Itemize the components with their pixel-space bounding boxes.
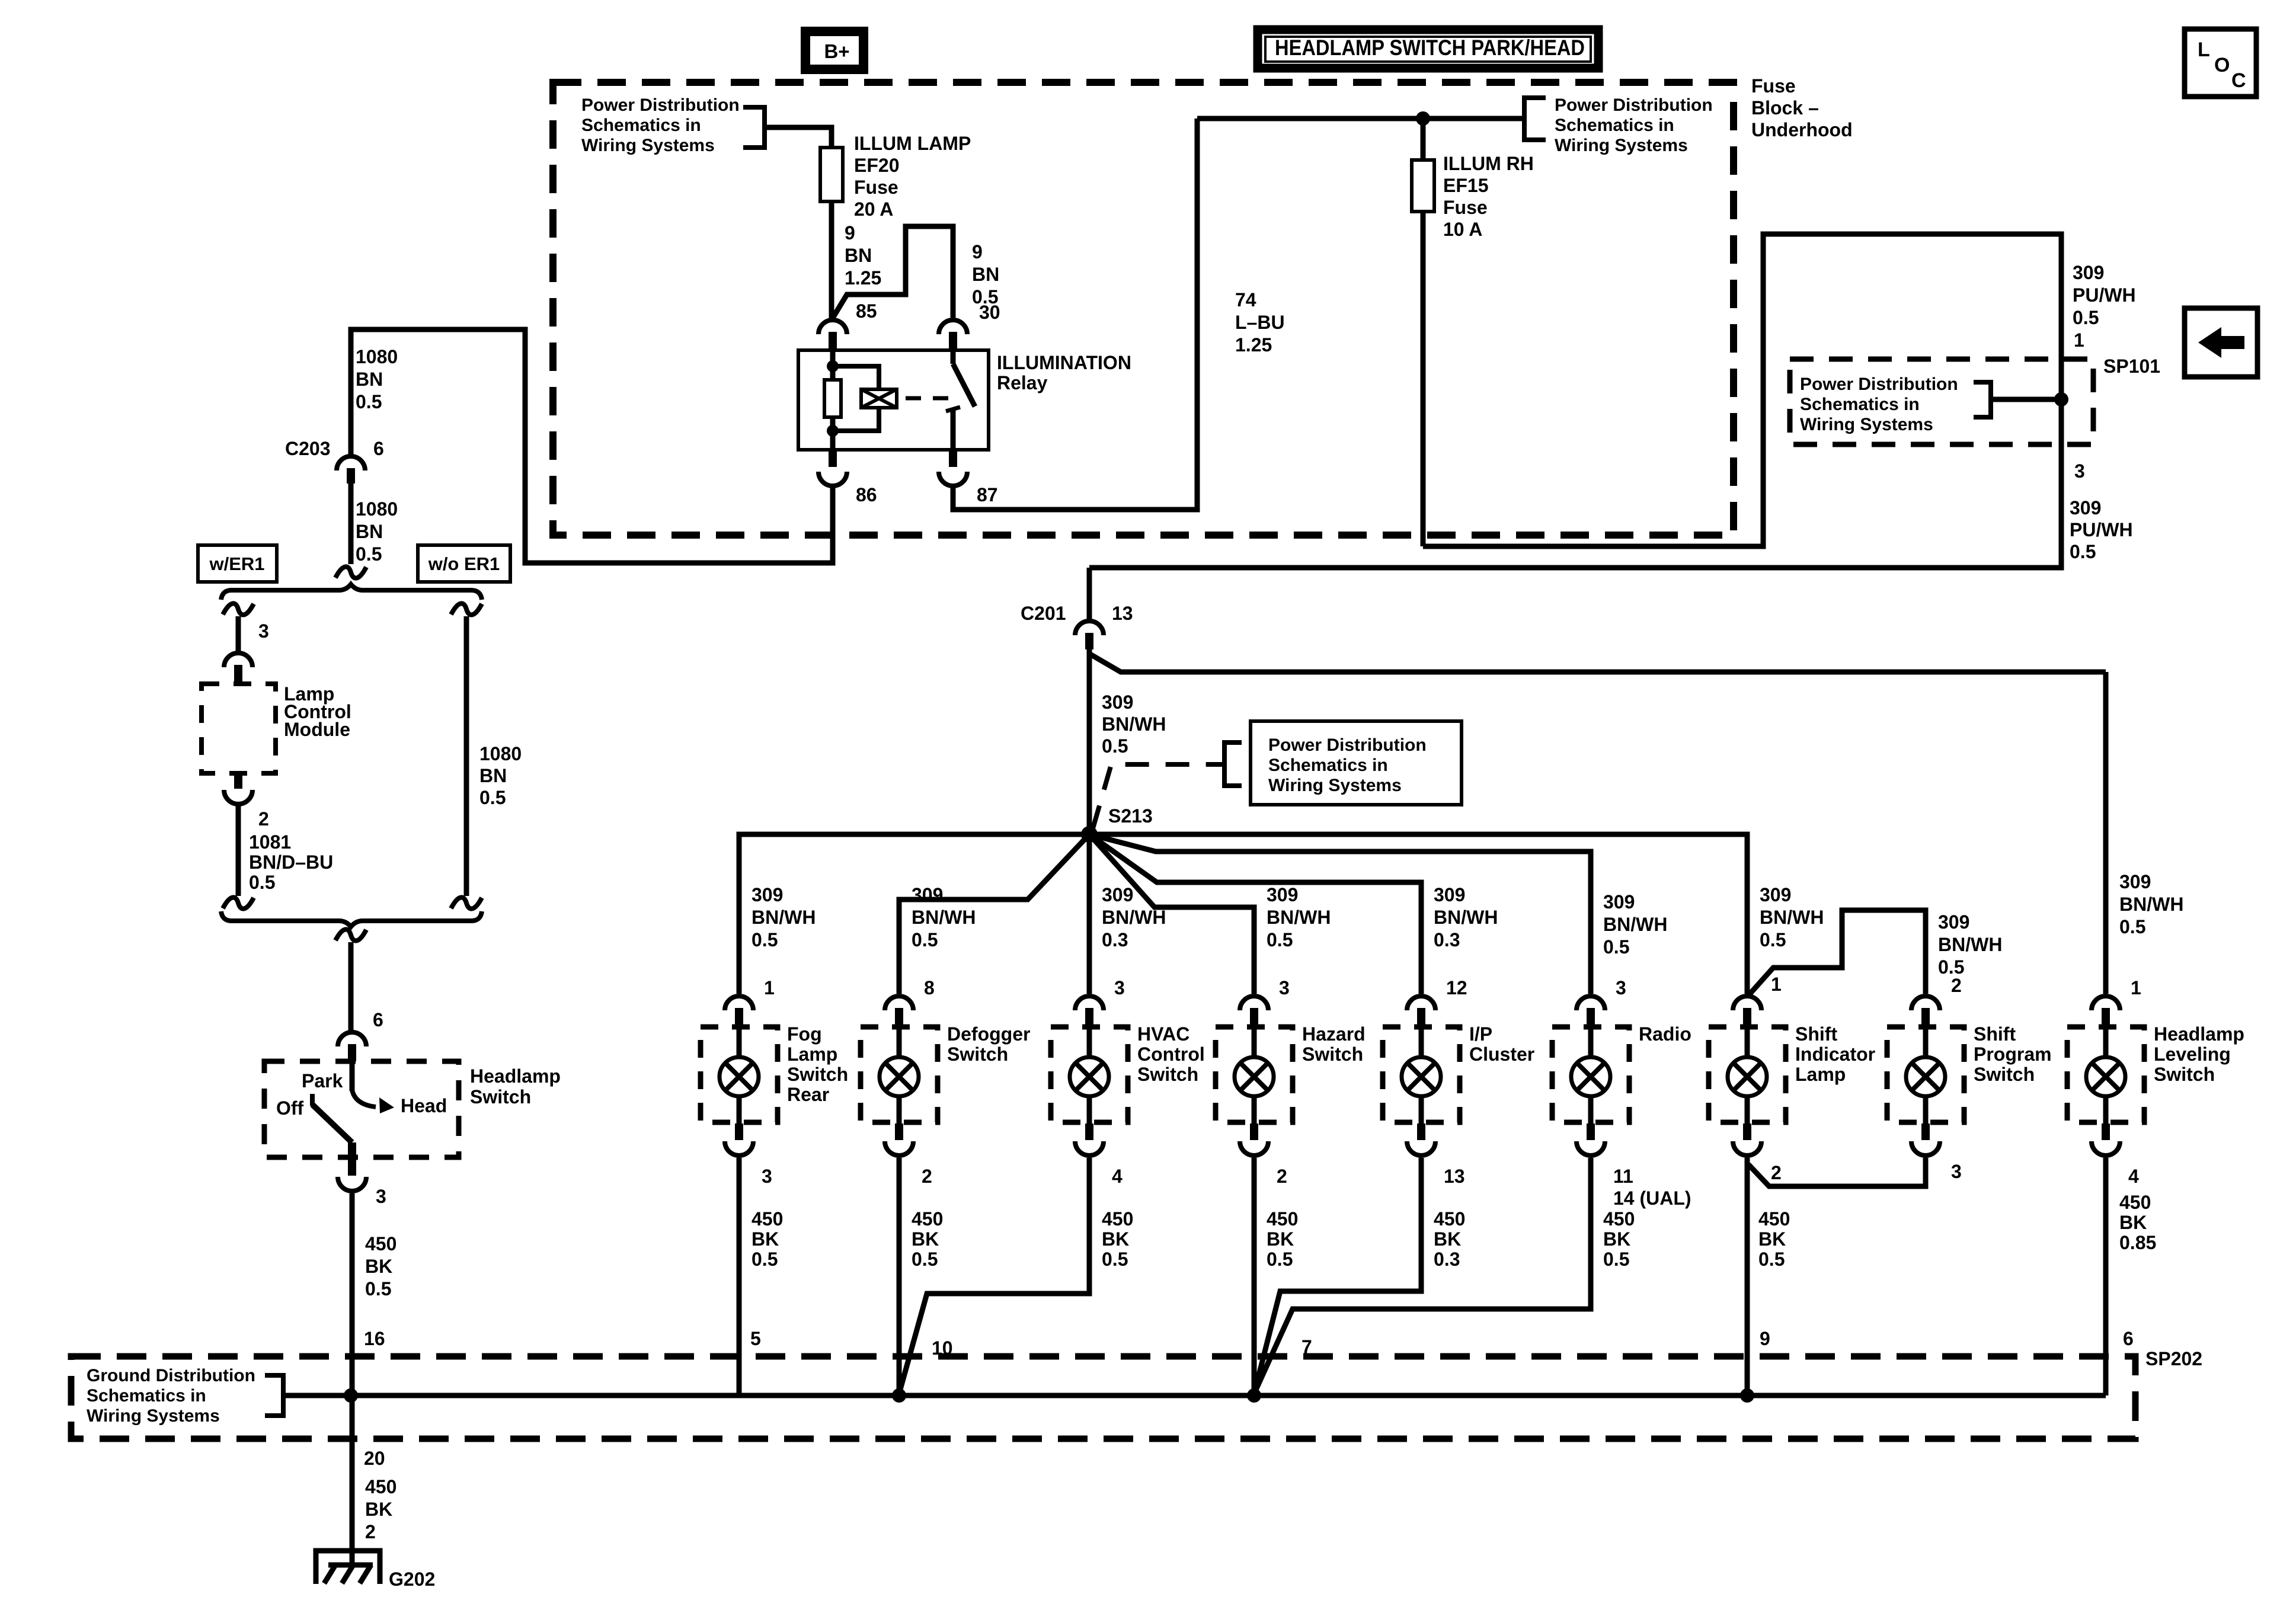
junction node headlamp switch ground <box>344 1388 358 1403</box>
svg-text:Rear: Rear <box>787 1084 829 1105</box>
svg-text:1.25: 1.25 <box>1235 334 1272 356</box>
wire top feed to bracket (right) <box>1197 116 1524 121</box>
svg-text:450: 450 <box>912 1208 943 1230</box>
svg-text:0.5: 0.5 <box>1760 929 1786 950</box>
bracket ground distribution <box>265 1375 283 1416</box>
svg-text:Hazard: Hazard <box>1302 1023 1366 1045</box>
wire from bracket to fuse EF20 <box>765 127 832 148</box>
svg-text:EF15: EF15 <box>1443 175 1488 196</box>
svg-text:BN/WH: BN/WH <box>752 907 816 928</box>
svg-text:309: 309 <box>1267 884 1298 905</box>
svg-text:Switch: Switch <box>1974 1064 2035 1085</box>
wire Shift Program to jog <box>1748 1158 1926 1186</box>
svg-text:C203: C203 <box>285 438 331 459</box>
connector headlamp switch pin 3 <box>338 1142 386 1207</box>
svg-text:0.5: 0.5 <box>912 929 938 950</box>
svg-text:85: 85 <box>856 300 877 322</box>
svg-text:C: C <box>2231 69 2246 92</box>
svg-text:0.5: 0.5 <box>1267 1249 1293 1270</box>
lamp HVAC Control Switch <box>1070 977 1125 1156</box>
switch common wire <box>350 1061 355 1091</box>
svg-text:SP101: SP101 <box>2103 356 2160 377</box>
svg-text:450: 450 <box>365 1476 396 1497</box>
branch brace bottom <box>221 911 482 927</box>
svg-text:Schematics in: Schematics in <box>1800 395 1920 414</box>
wire break above brace <box>335 566 366 578</box>
junction node at fuse EF15 <box>1416 111 1430 126</box>
splice SP101 dashed box <box>1790 359 2093 444</box>
svg-text:4: 4 <box>2128 1166 2139 1187</box>
power symbol B+ box <box>805 31 864 69</box>
wire I/P cluster to ground jog (450 BK 0.3) <box>1254 1158 1421 1394</box>
svg-text:0.5: 0.5 <box>356 543 382 565</box>
dashed box I/P Cluster <box>1383 1027 1460 1122</box>
svg-text:Shift: Shift <box>1974 1023 2016 1045</box>
svg-text:Schematics in: Schematics in <box>1268 756 1388 775</box>
bracket to power distribution (right) <box>1524 98 1546 140</box>
svg-text:L: L <box>2198 39 2210 61</box>
wire C201 to S213 (309 BN/WH 0.5) <box>1087 649 1092 834</box>
wire pin 87 to junction (74 L-BU 1.25) <box>953 119 1197 510</box>
svg-text:0.5: 0.5 <box>479 787 506 808</box>
svg-text:Fuse: Fuse <box>1443 197 1488 218</box>
svg-text:0.5: 0.5 <box>2073 307 2099 328</box>
svg-text:BN/WH: BN/WH <box>1434 907 1498 928</box>
wire C201 branch to headlamp leveling <box>1088 653 2106 672</box>
svg-text:ILLUM RH: ILLUM RH <box>1443 153 1534 174</box>
svg-text:0.5: 0.5 <box>1603 1249 1629 1270</box>
svg-text:Schematics in: Schematics in <box>1555 116 1674 135</box>
svg-text:L–BU: L–BU <box>1235 312 1285 333</box>
svg-text:Off: Off <box>276 1097 304 1119</box>
svg-text:Switch: Switch <box>787 1064 848 1085</box>
svg-text:Block –: Block – <box>1751 97 1819 119</box>
junction node shift indicator ground <box>1740 1388 1754 1403</box>
pin 85 connector <box>818 300 877 350</box>
svg-text:450: 450 <box>1102 1208 1133 1230</box>
svg-text:1080: 1080 <box>356 498 398 520</box>
dashed box Headlamp Leveling Switch <box>2067 1027 2144 1122</box>
svg-text:SP202: SP202 <box>2145 1348 2202 1369</box>
svg-text:Ground Distribution: Ground Distribution <box>87 1366 255 1385</box>
relay dashed actuation link <box>906 396 948 401</box>
svg-text:BK: BK <box>752 1228 779 1250</box>
dashed box Defogger Switch <box>861 1027 938 1122</box>
svg-text:BN: BN <box>356 369 383 390</box>
svg-text:2: 2 <box>365 1521 376 1542</box>
svg-text:Indicator: Indicator <box>1795 1044 1875 1065</box>
svg-text:BN: BN <box>845 245 872 266</box>
svg-text:74: 74 <box>1235 289 1256 311</box>
relay coil (box with X) <box>833 366 897 431</box>
dashed box Shift Program Switch <box>1887 1027 1964 1122</box>
svg-text:Underhood: Underhood <box>1751 119 1853 140</box>
svg-text:BN/WH: BN/WH <box>912 907 976 928</box>
wire break w/ER1 branch bottom <box>223 897 254 908</box>
wire break w/o ER1 branch bottom <box>451 897 482 908</box>
svg-text:11: 11 <box>1613 1166 1633 1187</box>
svg-text:BN/WH: BN/WH <box>1102 907 1166 928</box>
connector C201 pin 13 <box>1021 603 1133 649</box>
svg-text:10 A: 10 A <box>1443 219 1482 240</box>
wire Radio to ground jog (450 BK 0.5) <box>1254 1158 1591 1394</box>
svg-text:87: 87 <box>977 484 998 505</box>
svg-text:0.5: 0.5 <box>365 1278 391 1299</box>
Fuse Block - Underhood dashed box <box>553 82 1734 535</box>
svg-text:3: 3 <box>762 1166 772 1187</box>
pin 87 connector <box>939 450 998 505</box>
ground bus wire SP202 <box>283 1393 2106 1398</box>
wire to Headlamp Leveling switch <box>2103 672 2109 994</box>
svg-text:309: 309 <box>1102 884 1133 905</box>
Ground Distribution dashed box SP202 <box>71 1356 2135 1439</box>
svg-text:Wiring Systems: Wiring Systems <box>1268 776 1402 795</box>
svg-text:0.5: 0.5 <box>1603 936 1629 958</box>
svg-text:0.5: 0.5 <box>752 1249 778 1270</box>
svg-text:HVAC: HVAC <box>1137 1023 1189 1045</box>
lamp I/P Cluster <box>1402 977 1467 1156</box>
svg-text:13: 13 <box>1112 603 1133 624</box>
svg-text:0.5: 0.5 <box>1102 735 1128 757</box>
wire Shift Indicator to ground (450 BK 0.5) <box>1745 1158 1750 1394</box>
svg-text:S213: S213 <box>1108 805 1153 827</box>
svg-text:3: 3 <box>1114 977 1125 998</box>
svg-text:6: 6 <box>373 1009 383 1030</box>
svg-text:Defogger: Defogger <box>947 1023 1030 1045</box>
svg-text:BK: BK <box>1102 1228 1129 1250</box>
svg-text:0.5: 0.5 <box>752 929 778 950</box>
wire bracket to SP101 node <box>1991 397 2061 402</box>
branch brace top <box>221 584 482 600</box>
svg-text:B+: B+ <box>824 40 849 62</box>
lamp Defogger Switch <box>880 977 935 1156</box>
svg-text:BK: BK <box>1434 1228 1461 1250</box>
svg-text:0.3: 0.3 <box>1434 1249 1460 1270</box>
svg-text:1: 1 <box>1771 974 1782 995</box>
svg-text:0.85: 0.85 <box>2119 1232 2156 1253</box>
svg-text:BK: BK <box>912 1228 939 1250</box>
junction node hazard/IP/radio ground <box>1247 1388 1261 1403</box>
svg-text:Wiring Systems: Wiring Systems <box>1800 415 1933 434</box>
option label box w/ER1 <box>198 545 277 582</box>
svg-text:1080: 1080 <box>356 346 398 367</box>
svg-text:Schematics in: Schematics in <box>581 116 701 135</box>
svg-text:HEADLAMP SWITCH PARK/HEAD: HEADLAMP SWITCH PARK/HEAD <box>1275 36 1585 60</box>
svg-text:BN/D–BU: BN/D–BU <box>249 852 333 873</box>
connector Lamp Control Module pin 3 <box>224 653 252 683</box>
svg-text:BK: BK <box>2119 1212 2147 1233</box>
relay coil resistor branch <box>824 350 841 450</box>
svg-text:450: 450 <box>365 1233 396 1254</box>
svg-text:BK: BK <box>1603 1228 1630 1250</box>
svg-text:ILLUMINATION: ILLUMINATION <box>997 352 1131 373</box>
svg-text:309: 309 <box>1102 692 1133 713</box>
switch Headlamp Switch dashed box <box>264 1061 459 1157</box>
svg-text:Power Distribution: Power Distribution <box>1555 95 1713 115</box>
svg-text:3: 3 <box>376 1186 386 1207</box>
title box HEADLAMP SWITCH PARK/HEAD <box>1258 30 1598 68</box>
svg-text:0.5: 0.5 <box>2070 541 2096 562</box>
wire fuse EF20 to relay pin 85 <box>829 201 834 319</box>
wire w/o ER1 branch (1080 BN 0.5) <box>464 616 469 896</box>
svg-text:Power Distribution: Power Distribution <box>581 95 740 115</box>
wire to Lamp Control Module pin 3 <box>236 616 241 652</box>
svg-text:G202: G202 <box>389 1569 435 1590</box>
svg-text:309: 309 <box>2073 262 2104 283</box>
svg-text:3: 3 <box>258 620 269 642</box>
svg-text:BN: BN <box>479 765 507 786</box>
svg-text:PU/WH: PU/WH <box>2070 519 2133 540</box>
svg-text:Fuse: Fuse <box>1751 75 1796 97</box>
svg-text:450: 450 <box>1758 1208 1790 1230</box>
svg-text:13: 13 <box>1444 1166 1465 1187</box>
svg-text:BN: BN <box>972 264 999 285</box>
svg-text:BN/WH: BN/WH <box>1603 914 1667 935</box>
bracket to power distribution (left) <box>743 107 765 148</box>
svg-text:Head: Head <box>401 1095 447 1116</box>
svg-text:450: 450 <box>752 1208 783 1230</box>
wire break w/o ER1 branch top <box>451 603 482 614</box>
svg-text:0.5: 0.5 <box>1102 1249 1128 1270</box>
svg-text:450: 450 <box>1267 1208 1298 1230</box>
option label box w/o ER1 <box>418 545 510 582</box>
lamp Shift Indicator Lamp <box>1728 974 1782 1156</box>
svg-text:PU/WH: PU/WH <box>2073 284 2136 306</box>
wire jog Shift Indicator to Shift Program <box>1748 910 1926 996</box>
svg-text:0.3: 0.3 <box>1102 929 1128 950</box>
wire pin 2 down (1081 BN/D-BU 0.5) <box>236 806 241 896</box>
arrow pointer box <box>2185 308 2257 377</box>
svg-text:Headlamp: Headlamp <box>2154 1023 2244 1045</box>
svg-text:Headlamp: Headlamp <box>470 1065 561 1087</box>
svg-text:Fog: Fog <box>787 1023 822 1045</box>
lamp Radio <box>1571 977 1626 1156</box>
fuse EF15 ILLUM RH 10A <box>1412 119 1434 546</box>
svg-text:1080: 1080 <box>479 743 522 764</box>
svg-text:0.5: 0.5 <box>1758 1249 1785 1270</box>
svg-text:Shift: Shift <box>1795 1023 1837 1045</box>
svg-text:450: 450 <box>1434 1208 1465 1230</box>
svg-text:BN/WH: BN/WH <box>1938 934 2002 955</box>
svg-text:9: 9 <box>845 222 855 244</box>
svg-text:20 A: 20 A <box>854 199 893 220</box>
wire S213 to Defogger switch <box>899 834 1089 994</box>
svg-text:I/P: I/P <box>1469 1023 1492 1045</box>
svg-text:309: 309 <box>912 884 943 905</box>
svg-text:86: 86 <box>856 484 877 505</box>
svg-text:Leveling: Leveling <box>2154 1044 2231 1065</box>
svg-text:Wiring Systems: Wiring Systems <box>87 1406 220 1426</box>
svg-text:0.5: 0.5 <box>912 1249 938 1270</box>
svg-text:Relay: Relay <box>997 372 1048 393</box>
svg-text:Switch: Switch <box>1302 1044 1363 1065</box>
svg-text:Lamp: Lamp <box>787 1044 837 1065</box>
wire Hazard to ground (450 BK 0.5) <box>1252 1158 1257 1394</box>
wire pin 86 to C203 branch <box>351 329 833 563</box>
lamp Hazard Switch <box>1235 977 1290 1156</box>
svg-text:3: 3 <box>1951 1161 1962 1182</box>
junction node defogger/HVAC ground <box>892 1388 906 1403</box>
svg-text:1: 1 <box>2074 329 2084 351</box>
svg-text:0.5: 0.5 <box>249 872 275 893</box>
connector headlamp switch pin 6 <box>338 1009 383 1061</box>
svg-text:0.5: 0.5 <box>1267 929 1293 950</box>
svg-text:30: 30 <box>979 302 1000 323</box>
connector C203 pin 6 <box>285 438 384 484</box>
svg-text:Program: Program <box>1974 1044 2052 1065</box>
svg-text:Schematics in: Schematics in <box>87 1386 206 1406</box>
wire Defogger to ground (450 BK 0.5) <box>897 1158 902 1394</box>
svg-text:16: 16 <box>364 1328 385 1349</box>
svg-text:0.5: 0.5 <box>356 391 382 412</box>
ground G202 <box>316 1551 435 1590</box>
svg-text:Module: Module <box>284 719 350 740</box>
svg-text:3: 3 <box>2074 460 2085 482</box>
svg-text:O: O <box>2214 54 2230 76</box>
wire break w/ER1 branch top <box>223 603 254 614</box>
wire S213 to Hazard switch <box>1089 834 1254 994</box>
svg-text:Power Distribution: Power Distribution <box>1800 375 1958 394</box>
svg-text:450: 450 <box>1603 1208 1635 1230</box>
svg-text:Fuse: Fuse <box>854 177 898 198</box>
svg-text:3: 3 <box>1616 977 1626 998</box>
wire S213 to HVAC switch <box>1087 834 1092 994</box>
lamp Shift Program Switch <box>1906 975 1962 1156</box>
svg-text:6: 6 <box>2123 1328 2134 1349</box>
wire Headlamp Leveling to ground (450 BK 0.85) <box>2103 1158 2109 1394</box>
svg-text:450: 450 <box>2119 1192 2151 1213</box>
wire break below brace <box>335 929 366 940</box>
svg-text:2: 2 <box>258 808 269 830</box>
svg-text:309: 309 <box>2119 871 2151 892</box>
wire headlamp switch to ground (450 BK 0.5) <box>350 1193 355 1394</box>
svg-text:Radio: Radio <box>1639 1023 1691 1045</box>
switch travel arc with arrowhead <box>352 1090 376 1107</box>
switch lever from Off <box>312 1094 352 1142</box>
svg-text:BK: BK <box>1267 1228 1294 1250</box>
svg-text:BK: BK <box>365 1256 392 1277</box>
pin 30 connector <box>939 302 1000 350</box>
dashed box Fog Lamp Switch Rear <box>701 1027 778 1122</box>
svg-text:2: 2 <box>1951 975 1962 996</box>
svg-text:1: 1 <box>2131 977 2141 998</box>
svg-text:309: 309 <box>2070 497 2101 518</box>
svg-text:1081: 1081 <box>249 831 291 853</box>
svg-text:3: 3 <box>1279 977 1290 998</box>
svg-text:BK: BK <box>1758 1228 1786 1250</box>
svg-text:9: 9 <box>972 241 983 263</box>
svg-text:5: 5 <box>750 1328 761 1349</box>
svg-text:BN/WH: BN/WH <box>1267 907 1331 928</box>
wire S213 main horizontal <box>739 834 1747 994</box>
connector Lamp Control Module pin 2 <box>224 773 269 830</box>
svg-text:Switch: Switch <box>947 1044 1008 1065</box>
wire S213 to Radio <box>1089 834 1591 994</box>
wire HVAC to ground jog (450 BK 0.5) <box>899 1158 1089 1394</box>
svg-text:Lamp: Lamp <box>1795 1064 1846 1085</box>
svg-text:8: 8 <box>924 977 935 998</box>
svg-text:BN/WH: BN/WH <box>1760 907 1824 928</box>
svg-text:Switch: Switch <box>470 1086 531 1108</box>
svg-text:C201: C201 <box>1021 603 1066 624</box>
svg-text:Switch: Switch <box>1137 1064 1198 1085</box>
svg-text:12: 12 <box>1446 977 1467 998</box>
svg-text:1: 1 <box>764 977 775 998</box>
svg-text:Wiring Systems: Wiring Systems <box>581 136 715 155</box>
svg-text:14 (UAL): 14 (UAL) <box>1613 1188 1691 1209</box>
wire riser to C201 <box>1087 568 1092 620</box>
wire C203 to ER1 branch (1080 BN 0.5) <box>348 484 354 564</box>
svg-text:EF20: EF20 <box>854 155 899 176</box>
LOC reference box <box>2185 29 2256 97</box>
splice S213 <box>1081 826 1098 843</box>
svg-text:9: 9 <box>1760 1328 1770 1349</box>
svg-text:309: 309 <box>752 884 783 905</box>
dashed box Radio <box>1552 1027 1629 1122</box>
svg-text:ILLUM LAMP: ILLUM LAMP <box>854 133 971 154</box>
svg-text:BN/WH: BN/WH <box>2119 894 2183 915</box>
svg-text:0.3: 0.3 <box>1434 929 1460 950</box>
pin 86 connector <box>818 450 877 505</box>
svg-text:2: 2 <box>922 1166 932 1187</box>
svg-text:4: 4 <box>1112 1166 1123 1187</box>
junction node SP101 <box>2054 392 2068 406</box>
fuse EF20 ILLUM LAMP 20A <box>820 148 843 201</box>
bracket S213 ref <box>1224 742 1242 786</box>
svg-text:309: 309 <box>1938 911 1969 933</box>
svg-text:309: 309 <box>1603 891 1635 913</box>
svg-text:Control: Control <box>1137 1044 1205 1065</box>
lamp Headlamp Leveling Switch <box>2086 977 2141 1156</box>
dashed box Hazard Switch <box>1216 1027 1293 1122</box>
svg-text:BK: BK <box>365 1499 392 1520</box>
svg-text:BN: BN <box>356 521 383 542</box>
lamp Fog Lamp Switch Rear <box>720 977 775 1156</box>
svg-text:w/o ER1: w/o ER1 <box>428 553 500 574</box>
svg-text:6: 6 <box>373 438 384 459</box>
wire Fog Lamp to ground (450 BK 0.5) <box>737 1158 742 1394</box>
svg-text:2: 2 <box>1277 1166 1287 1187</box>
wire loop to SP101 <box>1089 234 2061 568</box>
wire S213 to I/P cluster <box>1089 834 1421 994</box>
svg-text:w/ER1: w/ER1 <box>209 553 264 574</box>
dashed box Shift Indicator Lamp <box>1709 1027 1786 1122</box>
svg-text:1.25: 1.25 <box>845 267 881 289</box>
svg-text:BN/WH: BN/WH <box>1102 713 1166 735</box>
wire to ground G202 <box>350 1395 355 1565</box>
bracket SP101 <box>1974 382 1991 417</box>
svg-text:Wiring Systems: Wiring Systems <box>1555 136 1688 155</box>
relay ILLUMINATION Relay box <box>798 350 989 450</box>
dashed box HVAC Control Switch <box>1051 1027 1128 1122</box>
svg-text:0.5: 0.5 <box>2119 916 2145 937</box>
svg-text:309: 309 <box>1434 884 1465 905</box>
wire jog to relay pin 30 (9 BN 0.5) <box>833 226 953 318</box>
svg-text:Park: Park <box>302 1070 343 1092</box>
wire to headlamp switch pin 6 <box>348 942 354 1031</box>
relay switch arm 30-87 <box>946 350 975 450</box>
svg-text:309: 309 <box>1760 884 1791 905</box>
module Lamp Control Module dashed box <box>202 684 276 773</box>
svg-text:20: 20 <box>364 1448 385 1469</box>
svg-text:Power Distribution: Power Distribution <box>1268 735 1427 755</box>
svg-text:Cluster: Cluster <box>1469 1044 1534 1065</box>
svg-text:Switch: Switch <box>2154 1064 2215 1085</box>
reference box: Power Distribution Schematics in Wiring Systems (S213) <box>1251 721 1462 805</box>
svg-text:2: 2 <box>1771 1162 1782 1183</box>
dashed wire S213 to power distribution ref <box>1093 764 1224 828</box>
